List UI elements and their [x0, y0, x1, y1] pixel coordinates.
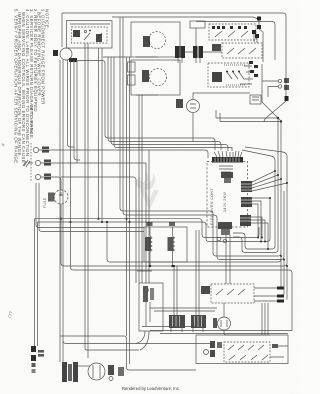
node dot G [280, 120, 282, 122]
paper noise [0, 0, 1, 1]
wire splice diagonals [262, 64, 286, 122]
switch S5 warmer dashed [201, 284, 282, 303]
wire bottom right horizontals [142, 327, 292, 334]
buzzer BZ1 [176, 93, 250, 142]
connector J1 [175, 46, 185, 58]
wire element drops [174, 266, 177, 315]
wire x70 continue [70, 150, 72, 222]
wire loop L6 [126, 191, 284, 260]
node pin E right bus [285, 96, 289, 101]
switch bank SB1 surface elements box [196, 335, 288, 364]
node pin B [257, 25, 261, 29]
wire control feeds [108, 57, 221, 150]
box door lock area [67, 21, 113, 49]
relay K1 [250, 95, 261, 104]
node dot x102 junction [101, 221, 103, 223]
terminal block TB1 [23, 143, 51, 182]
wire warmer feeds [281, 256, 287, 300]
wire C2 feeds [196, 230, 199, 315]
wire motor tap right [76, 61, 215, 151]
motor M1 door lock [53, 48, 77, 62]
node pin A [257, 17, 261, 21]
wire mid pairs down [127, 57, 150, 339]
connector J2 [193, 46, 203, 58]
node dot x70 junction [69, 221, 71, 223]
wire loop L3 sensor [233, 160, 275, 249]
wire band1 y222 U-loop [38, 198, 271, 242]
wire loop L4 sensor [233, 118, 278, 253]
wire drops door lock switch [85, 43, 88, 358]
terminal T1 run [39, 150, 208, 158]
node pin D [255, 34, 259, 38]
node pin C [252, 30, 256, 34]
switch S4 oven light dashed [208, 63, 253, 87]
motor M3 cooling fan [213, 303, 270, 335]
switch S1 infinite dashed [209, 24, 256, 40]
node dot x129 junction [128, 221, 130, 223]
wire y118 y121 [216, 110, 281, 122]
lock assembly bottom left [62, 362, 124, 382]
terminal T3 run to fuse [41, 177, 136, 283]
motor M4 cooling fan box [131, 60, 180, 95]
plug P5 lower control [240, 215, 269, 250]
switch S3 door lock dashed [72, 27, 108, 43]
notice text block [13, 9, 227, 225]
wire connector joins [178, 28, 222, 63]
wire stub left of P3 [137, 270, 152, 272]
wire loop L5 [123, 122, 281, 257]
sensor plug cluster [217, 222, 232, 284]
terminal block TB2 power [31, 346, 44, 373]
connector J5 small box [128, 75, 136, 85]
connector J3 small box [190, 21, 205, 28]
fan motor M2 convection box [131, 22, 180, 57]
wire top bus line3 [196, 22, 275, 61]
wire bottom left runs [60, 60, 196, 370]
terminal T2 run [41, 162, 146, 164]
wire top bus L1 [62, 13, 286, 97]
node dot x98 junction [97, 218, 99, 220]
plug P2 [241, 197, 271, 243]
wire warmer drops [262, 303, 268, 335]
wire motor bundle drops [68, 60, 81, 163]
heater E1 broil E2 bake box [144, 222, 187, 267]
node light switch pins [249, 61, 258, 77]
plug P1 [241, 170, 288, 192]
wire pin drops [254, 21, 263, 63]
wire band1 heads [120, 17, 126, 215]
wire left horizontals to elements [36, 183, 144, 232]
node dot F [277, 117, 279, 119]
wire left bus drop [61, 13, 63, 47]
node dot x126 junction [125, 218, 127, 220]
node dot fuse junction [60, 218, 62, 220]
connector C1 [169, 315, 185, 332]
connector J4 small box [128, 62, 136, 72]
watermark [136, 171, 159, 210]
node pin rows warmer [277, 287, 284, 303]
wire P3 outputs [146, 302, 217, 326]
switch S2 infinite dashed [212, 43, 262, 58]
lamp DS1 oven light [262, 78, 289, 97]
wire long y266 [61, 156, 287, 266]
connector C2 [191, 315, 206, 332]
wire power cord verticals [35, 219, 38, 346]
wire band1 y218 U-loop [35, 219, 260, 238]
wire top bus line2 [112, 17, 258, 19]
wire pin fan right [242, 147, 287, 160]
wire long y262 [107, 222, 281, 262]
plug P3 box [139, 283, 163, 331]
fuse F1 [48, 190, 68, 219]
wire long y270 [71, 222, 293, 331]
controller U1 electronic oven control dashed [207, 151, 248, 227]
